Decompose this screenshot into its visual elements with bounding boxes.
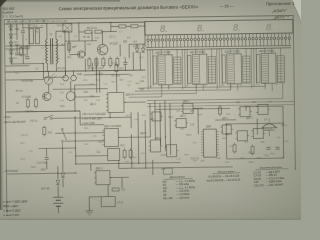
logic IC ДД5.2 <box>256 104 270 114</box>
resistor <box>43 125 46 136</box>
wires R6R7 <box>79 31 85 33</box>
resistor <box>119 25 126 28</box>
vertical x131 long <box>130 134 132 168</box>
capacitor C2 electrolytic <box>35 29 39 44</box>
data bus line 3 <box>132 84 197 94</box>
display pin 3 <box>154 35 156 48</box>
wire DD2 right <box>118 136 150 138</box>
resistor <box>218 105 221 116</box>
vertical wire x24b <box>22 42 24 64</box>
diode VD5 <box>9 58 13 62</box>
feed wires before ДД7 <box>182 49 188 89</box>
resistor <box>88 57 91 68</box>
wire y108 <box>246 105 283 108</box>
wire y74 seg <box>84 73 130 76</box>
input latch of ДД9 <box>257 54 261 82</box>
scattered tiny labels upper-left <box>14 22 290 169</box>
wire y47 <box>5 48 29 50</box>
battery cell symbol <box>53 197 63 206</box>
LED HL1 АЛ307 <box>44 73 56 84</box>
wire y140 <box>64 140 104 143</box>
capacitor C3 <box>15 53 19 55</box>
display pin 33 <box>263 33 265 46</box>
wire y44 rail <box>5 44 65 47</box>
connector pad big <box>66 92 75 101</box>
vertical wire x66 <box>64 31 67 75</box>
display pin 24 <box>230 34 232 47</box>
vertical wires mid right <box>154 100 157 139</box>
display pin bus 2 <box>146 48 291 50</box>
scattered tiny labels <box>15 22 270 173</box>
resistor <box>85 30 92 33</box>
display pin 34 <box>266 33 268 46</box>
display pin 5 <box>161 35 163 48</box>
legend resistors underline <box>212 173 240 174</box>
diode VD9 <box>61 173 65 177</box>
vertical wire x86 <box>84 41 86 56</box>
ADC IC ДД4 with pin hatch <box>201 129 219 157</box>
vertical x112 <box>110 23 112 32</box>
resistor ladder of ДД7 <box>208 57 216 84</box>
transistor VT1 <box>97 44 108 55</box>
wire mid rail <box>5 70 145 72</box>
wire y78 rail <box>6 78 44 81</box>
display pin 27 <box>241 34 243 47</box>
wire y163 long <box>76 163 181 164</box>
display pin 36 <box>273 33 275 46</box>
display pin 29 <box>248 34 250 47</box>
wires x46 <box>46 148 48 156</box>
diode VD10 <box>56 180 60 184</box>
display pin 1 <box>147 35 149 48</box>
diode VD8 <box>141 48 145 52</box>
input latch of ДД8 <box>222 55 226 83</box>
capacitor C4 <box>25 57 29 59</box>
vertical wire x18b <box>16 46 18 52</box>
capacitor C15 <box>276 147 280 149</box>
data bus line 2 <box>135 84 231 91</box>
capacitor <box>21 31 25 33</box>
display pin 25 <box>234 34 236 47</box>
data bus line 6 <box>147 101 294 103</box>
vertical x80b <box>79 111 81 125</box>
vertical wire x86b <box>84 59 86 71</box>
vertical wire x80 top <box>78 23 80 41</box>
wires below ДД7 <box>196 84 203 90</box>
display pin 17 <box>205 34 207 47</box>
wire y26 <box>23 26 43 28</box>
diode VD3 <box>9 42 13 46</box>
transistor box КТ12 <box>101 196 115 206</box>
wire x146 drop <box>144 22 146 47</box>
transformer T1 bottom leads <box>46 63 48 71</box>
display pin 31 <box>255 33 257 46</box>
display pin bus <box>146 46 291 48</box>
display pin 35 <box>270 33 272 46</box>
resistor <box>123 148 126 159</box>
junction dots 4 <box>226 123 227 124</box>
decoder IC ДД8 body <box>227 54 242 84</box>
transformer T1 primary winding <box>46 39 48 63</box>
resistor <box>95 30 102 33</box>
display pin 21 <box>219 34 221 47</box>
ground symbol <box>85 211 93 215</box>
resistor <box>68 41 71 52</box>
capacitor C10 <box>45 158 49 160</box>
logic IC ДД5.3 <box>235 131 249 141</box>
transformer T1 core <box>49 38 51 64</box>
small label box above legend <box>163 168 172 174</box>
decoder IC ДД9 pin hatching <box>262 55 268 82</box>
vertical wire x44 <box>42 63 44 79</box>
vertical x246 <box>245 107 247 111</box>
display pin 23 <box>226 34 228 47</box>
vertical x130 <box>128 44 130 58</box>
decoder IC ДД8 pin hatching <box>228 56 234 83</box>
ground stem <box>88 197 90 211</box>
wires ДД8 to display <box>230 48 246 56</box>
wire DD1 out <box>124 101 146 103</box>
page edge top-right <box>292 0 301 20</box>
wires below ДД8 <box>231 84 238 91</box>
display pin 2 <box>150 35 152 48</box>
resistor <box>116 56 119 67</box>
transformer T1 top leads <box>46 23 48 39</box>
resistor <box>102 57 105 68</box>
vertical wire x75b <box>74 85 76 111</box>
feed wires before ДД8 <box>217 49 223 89</box>
capacitor C1 electrolytic <box>29 29 33 44</box>
display pin 39 <box>284 33 286 46</box>
display pin 37 <box>277 33 279 46</box>
wire y26 right <box>111 25 119 27</box>
resistor <box>20 46 23 57</box>
diode VD4 <box>9 50 13 54</box>
wire y155 <box>76 155 108 157</box>
wire right col <box>282 106 285 158</box>
vertical wire x97 <box>95 59 97 93</box>
vertical wire x134 <box>132 52 134 70</box>
decoder IC ДД7 body <box>192 54 207 84</box>
vertical x145 long <box>144 120 147 168</box>
capacitor C14 <box>267 147 271 149</box>
HV diode column wire <box>10 24 13 64</box>
trigger box <box>108 148 120 160</box>
decoder IC ДД7 pin hatching <box>193 56 199 83</box>
resistor ladder of ДД6 <box>174 57 182 84</box>
display pin 19 <box>212 34 214 47</box>
junction dots 3 <box>74 117 75 118</box>
resistor <box>34 98 37 109</box>
schematic border frame <box>4 15 296 213</box>
resistor <box>109 57 112 68</box>
data bus line 7 <box>147 104 294 106</box>
junction dots extra <box>16 45 17 46</box>
data bus line 8 <box>155 108 230 109</box>
vertical x118b <box>118 160 120 168</box>
display pin 11 <box>183 34 185 47</box>
display pin 40 <box>288 33 290 46</box>
wires diodes top <box>136 44 138 48</box>
display pin 16 <box>201 34 203 47</box>
vertical wire x100 <box>98 71 100 93</box>
logic IC ДД2.1 <box>102 128 120 146</box>
display pin 15 <box>197 34 199 47</box>
top-left tick marks <box>4 15 10 18</box>
wire y160 right <box>227 157 284 160</box>
vertical x257 <box>256 119 258 135</box>
wire x121 drop <box>121 177 123 187</box>
wire y64 <box>5 65 29 67</box>
transistor VT2 <box>78 51 85 58</box>
display pin 12 <box>187 34 189 47</box>
transformer T1 secondary winding <box>56 39 58 63</box>
wire y172 <box>7 172 76 175</box>
wires x62 lower <box>62 149 64 172</box>
relay box with cross <box>63 24 72 33</box>
wire y84 <box>75 84 97 86</box>
switch SA2 contacts <box>61 128 66 149</box>
decoder IC ДД6 pin hatching <box>159 57 165 84</box>
wire x90 drop <box>90 164 92 171</box>
cap C2 wires <box>22 24 24 30</box>
wire row y125 right <box>226 122 283 125</box>
wire y96 <box>75 96 100 98</box>
wire y168 long <box>119 167 233 169</box>
display pin 28 <box>244 34 246 47</box>
wire y88 rail <box>53 88 108 91</box>
bus labels <box>150 84 279 88</box>
vertical wire x121 <box>119 44 121 56</box>
wire y40 rail <box>65 40 97 42</box>
feed wires before ДД6 <box>148 50 154 90</box>
display pin 18 <box>208 34 210 47</box>
battery wire x57 <box>57 166 59 179</box>
display pin 8 <box>172 35 174 48</box>
data bus line 1 <box>138 83 266 88</box>
junction dots row <box>10 23 11 24</box>
top rail wire <box>5 22 145 24</box>
logic IC ДД2.4 <box>94 171 112 185</box>
wire y132 <box>55 132 104 135</box>
wires cap C7 <box>124 58 126 62</box>
display pin 10 <box>179 35 181 48</box>
resistor <box>112 188 119 191</box>
logic IC ДД1.1 <box>106 92 126 112</box>
HL1 wires <box>47 71 49 76</box>
wires ДД9 to display <box>265 48 281 56</box>
wire y124 <box>80 124 104 126</box>
display pin 32 <box>259 33 261 46</box>
legend dividers underline <box>164 178 193 179</box>
wire x107 down <box>107 185 109 197</box>
resistor ladder of ДД9 <box>277 56 285 83</box>
display pin 30 <box>252 34 254 47</box>
logic IC ДД2.3 <box>164 145 178 157</box>
wire y76 <box>44 76 66 78</box>
wires ДД6 to display <box>161 49 177 57</box>
resistor <box>95 57 98 68</box>
vertical wire x93b <box>91 63 93 71</box>
vertical wire x75c <box>74 116 77 164</box>
VT1 collector wire <box>101 32 103 45</box>
resistor ladder of ДД8 <box>243 56 251 83</box>
display pin 38 <box>281 33 283 46</box>
vertical wire x18 <box>16 24 18 40</box>
resistor <box>251 145 254 156</box>
vertical wire x70 <box>68 31 70 53</box>
wires ДД7 to display <box>196 49 212 57</box>
vertical drop x152 <box>152 160 154 175</box>
vertical wire x30 <box>28 24 30 49</box>
resistor <box>115 62 118 73</box>
logic IC ДД3.1 <box>181 103 195 113</box>
diode VD7 <box>135 48 139 52</box>
piezo buzzer ЗП-1 <box>261 118 277 136</box>
vertical x138 long <box>137 112 140 163</box>
wire x226 drop <box>225 124 227 159</box>
wire x117 to DD1 <box>115 73 117 92</box>
display pin 6 <box>165 35 167 48</box>
vertical wire x141 <box>139 52 141 70</box>
resistor <box>26 98 29 109</box>
display pin 13 <box>190 34 192 47</box>
data bus line 5 <box>147 83 283 100</box>
diode VD1 <box>9 26 13 30</box>
wire y117 <box>52 117 131 118</box>
legend capacitors underline <box>255 169 288 170</box>
wires below ДД9 <box>265 83 272 91</box>
VT2 base wire <box>69 54 77 56</box>
transistor VT3 <box>43 92 52 101</box>
LED display HG1 box <box>145 19 293 35</box>
logic IC ДД5.5 <box>220 125 233 134</box>
vertical x150 drop <box>149 104 151 137</box>
resistor <box>131 25 138 28</box>
junction dots 2 <box>48 71 49 72</box>
connector pads <box>63 75 69 81</box>
resistor <box>233 143 236 154</box>
diode VD2 <box>9 34 13 38</box>
dark top-left corner blob <box>0 0 7 7</box>
wire x131 drop <box>130 112 132 128</box>
vertical wire x28b <box>26 46 28 56</box>
wires to ADC <box>193 107 203 109</box>
logic IC ДД3.3 <box>150 112 163 121</box>
display pin 9 <box>176 35 178 48</box>
battery wires <box>57 185 59 197</box>
decoder IC ДД6 body <box>158 55 173 85</box>
display pin 22 <box>223 34 225 47</box>
display pin 14 <box>194 34 196 47</box>
decoder IC ДД9 body <box>261 53 276 83</box>
display pin 4 <box>158 35 160 48</box>
wires below ДД6 <box>162 85 169 90</box>
input latch of ДД6 <box>153 56 157 84</box>
switch SA1 contacts <box>44 115 53 120</box>
resistor <box>129 148 132 159</box>
logic IC ДД5.1 <box>238 107 252 117</box>
wire y177 link <box>110 176 129 178</box>
logic IC ДД5.4 <box>251 128 265 138</box>
display pin 20 <box>216 34 218 47</box>
pad wires <box>64 71 66 75</box>
wire bottom link <box>89 197 101 202</box>
data bus line 4 <box>129 85 162 97</box>
vertical wire x93 <box>91 32 93 41</box>
display pin 7 <box>169 35 171 48</box>
wire to transformer <box>11 62 43 64</box>
diode mark row <box>8 20 10 22</box>
wire y147 <box>39 147 76 150</box>
feed wires before ДД9 <box>251 48 257 88</box>
input latch of ДД7 <box>188 55 192 83</box>
logic IC ДД3.2 <box>174 118 188 127</box>
wire row y121 right <box>215 119 236 121</box>
logic IC ДД2.2 <box>148 140 162 152</box>
display pin 26 <box>237 34 239 47</box>
wire x110 drop <box>109 113 111 118</box>
wire y110 rail <box>6 111 80 112</box>
capacitor <box>123 62 127 64</box>
